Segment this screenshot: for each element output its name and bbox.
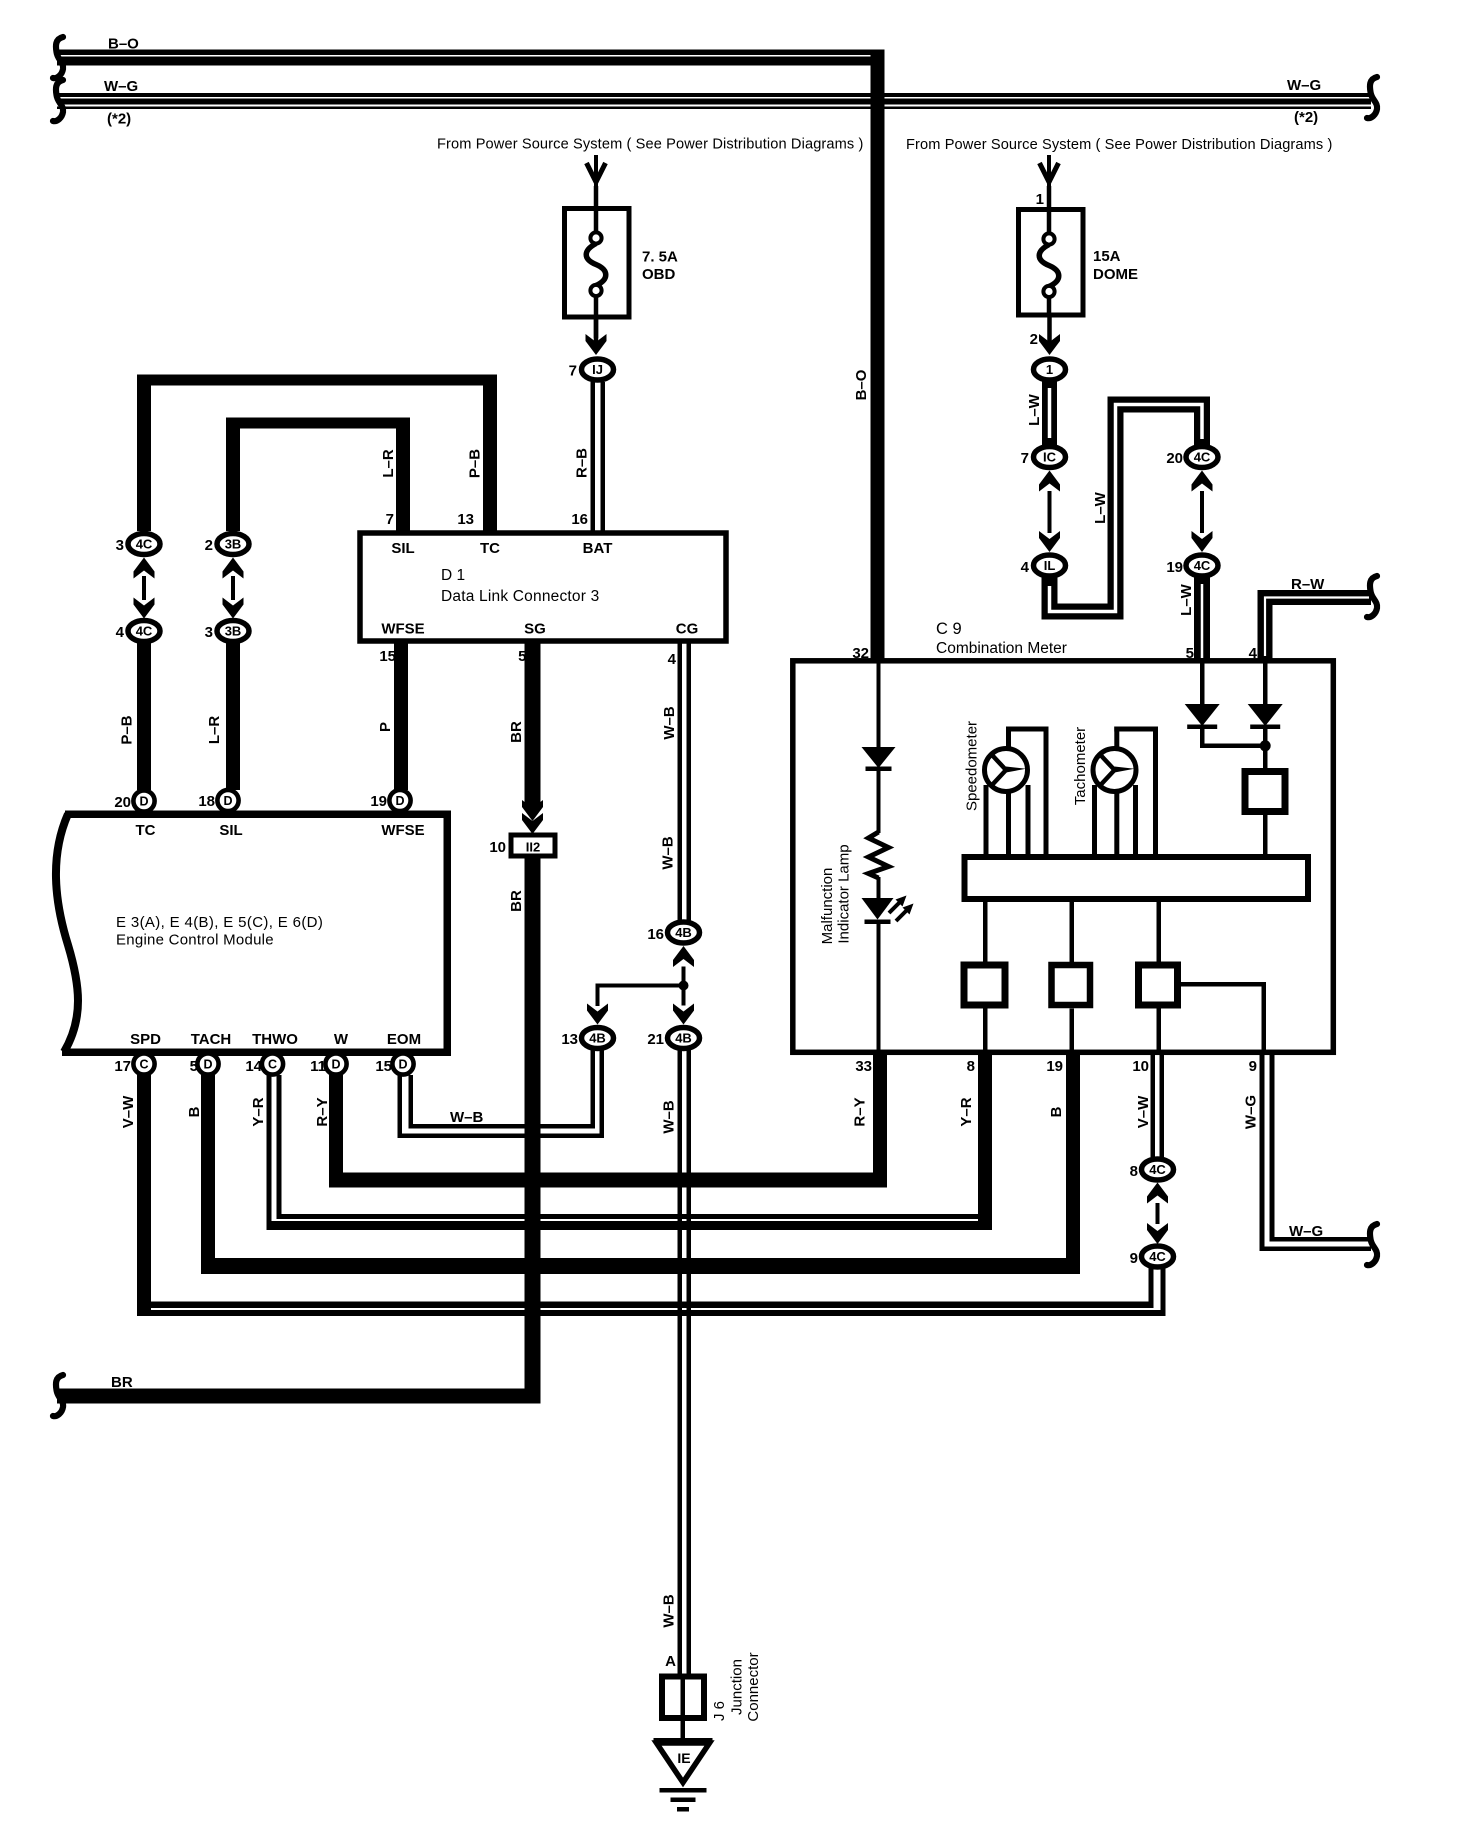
label D1 WFSE	[381, 621, 424, 638]
label ECM SIL	[219, 822, 242, 839]
wire W-B 13 4B to EOM run	[591, 1049, 605, 1139]
svg-text:B–O: B–O	[853, 369, 870, 400]
svg-text:II2: II2	[526, 840, 540, 855]
svg-text:20: 20	[1166, 450, 1183, 467]
svg-text:Junction: Junction	[729, 1659, 746, 1715]
wire R-Y up to C9 pin 33	[873, 1055, 887, 1188]
svg-text:Tachometer: Tachometer	[1072, 727, 1089, 805]
svg-text:W–G: W–G	[104, 78, 138, 95]
text from power source system left	[437, 137, 864, 153]
wire square 3 to pin 10	[1157, 1009, 1162, 1053]
label V-W left	[120, 1095, 137, 1128]
svg-text:8: 8	[967, 1058, 975, 1075]
label Malfunction Indicator Lamp	[819, 844, 853, 944]
wire junction to resistor block	[1263, 746, 1268, 768]
wire J6 to ground	[681, 1721, 686, 1739]
mating arrows 20 4C to 19 4C	[1192, 471, 1213, 553]
label B left	[186, 1106, 203, 1117]
pin number 18	[198, 793, 215, 810]
label ECM W	[334, 1031, 349, 1048]
mating arrows 4C pair	[134, 558, 155, 619]
wire BR bottom run	[57, 1389, 541, 1404]
pin 17 C of ECM SPD	[133, 1053, 154, 1074]
svg-text:J 6: J 6	[711, 1701, 728, 1721]
arrows into connector II2	[522, 800, 543, 834]
label W-B upper	[661, 706, 678, 740]
wire diode 5 elbow	[1200, 729, 1266, 748]
text from power source system right	[906, 137, 1333, 153]
svg-text:5: 5	[190, 1058, 198, 1075]
svg-text:C: C	[268, 1058, 277, 1072]
wire L-W IL to connector 20 4C	[1050, 405, 1203, 612]
pin 18 D of ECM SIL	[217, 790, 238, 811]
svg-text:Y–R: Y–R	[250, 1097, 267, 1126]
svg-text:D: D	[395, 794, 404, 808]
hook right end of wire W-G top	[1367, 77, 1377, 118]
wire W-G bottom run	[1260, 1237, 1372, 1251]
label BR bottom	[111, 1374, 133, 1391]
svg-text:B: B	[186, 1106, 203, 1117]
wire BR D1 SG down	[525, 644, 541, 811]
svg-text:OBD: OBD	[642, 266, 676, 283]
wire L-W 19 4C to C9 pin 5	[1194, 576, 1210, 662]
label ECM THWO	[252, 1031, 298, 1048]
svg-text:TC: TC	[136, 822, 156, 839]
connector 3 3B	[217, 621, 249, 642]
label Y-R left	[250, 1097, 267, 1126]
label D1 SIL	[391, 540, 414, 557]
power feed arrow to fuse DOME	[1040, 155, 1059, 193]
wire resistor to LED	[877, 877, 881, 898]
label R-Y right	[852, 1097, 869, 1126]
pin 10 of connector II2	[489, 839, 506, 856]
pin 9 of C9	[1249, 1058, 1257, 1075]
hook left end of wire W-G top	[53, 80, 63, 121]
svg-text:W–G: W–G	[1287, 77, 1321, 94]
wire Y-R ECM THWO down	[267, 1075, 282, 1230]
label P-B hook	[467, 449, 484, 478]
svg-text:V–W: V–W	[120, 1095, 137, 1128]
svg-text:Data Link Connector 3: Data Link Connector 3	[441, 588, 599, 605]
wire square 1 to pin 8	[983, 1009, 988, 1053]
svg-text:W–G: W–G	[1243, 1095, 1260, 1129]
wire L-R 3B to ECM SIL	[226, 642, 240, 791]
junction connector J6	[662, 1674, 704, 1722]
svg-text:B–O: B–O	[108, 36, 139, 53]
svg-text:Malfunction: Malfunction	[819, 868, 836, 945]
svg-text:3: 3	[116, 537, 124, 554]
svg-text:19: 19	[1166, 559, 1183, 576]
svg-text:W–B: W–B	[661, 1594, 678, 1628]
svg-text:L–R: L–R	[206, 716, 223, 745]
driver square 1	[964, 965, 1005, 1005]
hook wire P-B ECM TC to D1 TC	[137, 375, 497, 532]
wire P D1 WFSE to ECM WFSE	[394, 644, 408, 791]
label BR upper	[508, 721, 525, 743]
svg-text:THWO: THWO	[252, 1031, 298, 1048]
label W-B EOM run	[450, 1109, 484, 1126]
label D1 CG	[676, 621, 699, 638]
pin 19 D of ECM WFSE	[389, 790, 410, 811]
label (*2) right	[1294, 109, 1318, 126]
svg-text:7: 7	[1021, 450, 1029, 467]
pin 8 of connector 8 4C	[1130, 1163, 1138, 1180]
svg-text:C 9: C 9	[936, 620, 962, 638]
svg-text:15: 15	[375, 1058, 392, 1075]
wire square 3 to pin 9	[1181, 982, 1266, 1052]
diode MIL	[862, 747, 896, 771]
svg-text:7: 7	[386, 511, 394, 528]
svg-text:P: P	[377, 722, 394, 732]
svg-text:D: D	[223, 794, 232, 808]
svg-text:SPD: SPD	[130, 1031, 161, 1048]
pin 20 of connector 4C	[1166, 450, 1183, 467]
svg-text:19: 19	[1046, 1058, 1063, 1075]
svg-text:Engine Control Module: Engine Control Module	[116, 932, 274, 949]
pin 19 of C9	[1046, 1058, 1063, 1075]
svg-text:4C: 4C	[1149, 1249, 1166, 1264]
svg-text:BR: BR	[111, 1374, 133, 1391]
wire diode to resistor	[877, 771, 881, 833]
arrow into 13 4B	[587, 1002, 608, 1025]
label Tachometer	[1072, 727, 1089, 805]
svg-text:P–B: P–B	[467, 449, 484, 478]
label B right	[1048, 1106, 1065, 1117]
pin 16 of connector 16 4B	[647, 926, 664, 943]
pin 5 of D1 SG	[518, 648, 526, 665]
pin 4 of D1 CG	[668, 651, 677, 668]
svg-text:4C: 4C	[1194, 450, 1211, 465]
label R-Y left	[314, 1097, 331, 1126]
svg-text:V–W: V–W	[1135, 1095, 1152, 1128]
driver square 3	[1139, 965, 1178, 1005]
svg-text:R–B: R–B	[574, 448, 591, 478]
svg-text:9: 9	[1130, 1250, 1138, 1267]
svg-text:16: 16	[647, 926, 664, 943]
label D1 BAT	[583, 540, 613, 557]
wire R-W to C9 pin 4	[1265, 598, 1371, 661]
label W-B near J6	[661, 1594, 678, 1628]
svg-text:SIL: SIL	[219, 822, 242, 839]
svg-text:1: 1	[1046, 362, 1053, 377]
pin 2 of connector 2 3B	[205, 537, 213, 554]
wire bus to square 1	[983, 902, 988, 962]
wire W-G top horizontal bus	[57, 93, 1371, 109]
wire V-W ECM SPD down	[137, 1075, 151, 1316]
svg-text:BR: BR	[508, 890, 525, 912]
pin 13 of D1 TC	[457, 511, 474, 528]
label L-W fuse to IC	[1026, 393, 1043, 426]
connector 9 4C	[1142, 1246, 1174, 1267]
svg-text:L–R: L–R	[380, 449, 397, 478]
svg-text:IL: IL	[1044, 558, 1056, 573]
wire V-W up to 9 4C	[1149, 1268, 1166, 1317]
svg-text:R–Y: R–Y	[852, 1097, 869, 1126]
label V-W right	[1135, 1095, 1152, 1128]
wire R-Y horizontal run	[329, 1173, 887, 1188]
wire resistor block to bus	[1263, 812, 1268, 855]
hook wire L-R ECM SIL to D1 SIL	[226, 418, 410, 532]
svg-text:7. 5A: 7. 5A	[642, 249, 678, 266]
wire LED to pin 33	[877, 924, 881, 1052]
wire bus to square 2	[1070, 902, 1075, 962]
svg-text:R–Y: R–Y	[314, 1097, 331, 1126]
label P-B	[119, 715, 136, 744]
label L-R	[206, 716, 223, 745]
wire branch to 13 4B	[596, 984, 684, 1006]
svg-text:10: 10	[489, 839, 506, 856]
svg-text:From Power Source System ( See: From Power Source System ( See Power Dis…	[437, 137, 864, 153]
fuse 15A DOME	[1019, 207, 1084, 315]
svg-text:W–B: W–B	[660, 836, 677, 870]
pin 2 of fuse DOME	[1030, 331, 1038, 348]
pin 1 of fuse DOME	[1036, 191, 1044, 208]
resistor block C9	[1245, 772, 1285, 812]
pin 15 of D1 WFSE	[379, 648, 396, 665]
svg-text:1: 1	[1036, 191, 1044, 208]
pin number 14	[245, 1058, 262, 1075]
svg-text:E 3(A), E 4(B), E 5(C), E 6(D): E 3(A), E 4(B), E 5(C), E 6(D)	[116, 914, 323, 931]
svg-text:4C: 4C	[136, 537, 153, 552]
speedometer gauge	[985, 749, 1028, 792]
mating arrows 8 4C to 9 4C	[1147, 1183, 1168, 1245]
svg-text:4: 4	[1021, 559, 1030, 576]
box C9 combination meter	[793, 661, 1334, 1053]
svg-text:P–B: P–B	[119, 715, 136, 744]
connector 1	[1034, 359, 1066, 380]
box D1 data link connector 3	[360, 533, 726, 641]
svg-text:D: D	[139, 795, 148, 809]
pin 14 C of ECM THWO	[262, 1053, 283, 1074]
svg-text:EOM: EOM	[387, 1031, 421, 1048]
wire feed to fuse OBD	[594, 186, 599, 208]
svg-text:TC: TC	[480, 540, 500, 557]
fuse 7.5A OBD	[565, 206, 630, 338]
label R-B	[574, 448, 591, 478]
svg-text:W–B: W–B	[661, 706, 678, 740]
pin 10 of C9	[1132, 1058, 1149, 1075]
pin 4 of connector IL	[1021, 559, 1030, 576]
label W-B below 21 4B	[661, 1100, 678, 1134]
wire feed to fuse DOME	[1047, 186, 1052, 209]
label ECM TACH	[191, 1031, 232, 1048]
pin 33 of C9	[855, 1058, 872, 1075]
svg-text:SG: SG	[524, 621, 546, 638]
svg-text:15: 15	[379, 648, 396, 665]
pin A of J6	[665, 1653, 676, 1670]
wire L-W connector 1 to IC	[1042, 380, 1057, 446]
svg-text:4B: 4B	[675, 925, 692, 940]
pin 19 of connector 19 4C	[1166, 559, 1183, 576]
svg-text:BAT: BAT	[583, 540, 613, 557]
svg-text:IE: IE	[677, 1750, 690, 1766]
svg-text:13: 13	[457, 511, 474, 528]
svg-text:D: D	[203, 1058, 212, 1072]
label ECM WFSE	[381, 822, 424, 839]
svg-text:16: 16	[571, 511, 588, 528]
wire B horizontal run	[201, 1258, 1080, 1274]
arrow into 21 4B	[673, 1004, 694, 1025]
svg-text:Y–R: Y–R	[958, 1097, 975, 1126]
arrow below 16 4B	[673, 946, 694, 981]
label 7. 5A OBD	[642, 249, 678, 284]
connector 4 4C	[128, 621, 160, 642]
connector IC	[1034, 447, 1066, 468]
hook right end of wire W-G bottom	[1367, 1224, 1377, 1265]
svg-text:D: D	[331, 1058, 340, 1072]
pin number 17	[114, 1058, 131, 1075]
pin number 20	[114, 794, 131, 811]
ground IE	[654, 1738, 713, 1812]
wire C9 pin 4 to diode	[1263, 663, 1268, 704]
svg-text:WFSE: WFSE	[381, 822, 424, 839]
svg-text:From Power Source System ( See: From Power Source System ( See Power Dis…	[906, 137, 1333, 153]
svg-text:20: 20	[114, 794, 131, 811]
svg-text:3: 3	[205, 624, 213, 641]
svg-text:21: 21	[647, 1031, 664, 1048]
text D 1 Data Link Connector 3	[441, 567, 599, 605]
box ECM	[56, 811, 451, 1057]
svg-text:B: B	[1048, 1106, 1065, 1117]
svg-text:Speedometer: Speedometer	[964, 721, 981, 811]
bus bar C9	[965, 857, 1309, 899]
svg-text:IJ: IJ	[592, 362, 603, 377]
pin 11 D of ECM W	[325, 1053, 346, 1074]
svg-text:19: 19	[370, 793, 387, 810]
wire W-B 21 4B to J6	[678, 1049, 692, 1675]
label W-G pin 9	[1243, 1095, 1260, 1129]
wire BR II2 down	[525, 859, 541, 1404]
mating arrows 3B pair	[223, 558, 244, 619]
diode under pin 5	[1185, 704, 1220, 729]
junction dot W-B	[679, 981, 689, 991]
hook left end of wire B-O	[53, 37, 63, 78]
pin number 15	[375, 1058, 392, 1075]
text ECM name	[116, 914, 323, 949]
svg-text:7: 7	[569, 363, 577, 380]
label B-O top	[108, 36, 139, 53]
hook right end of wire R-W	[1367, 576, 1377, 617]
connector 20 4C	[1186, 447, 1218, 468]
svg-text:R–W: R–W	[1291, 576, 1325, 593]
svg-text:W–B: W–B	[661, 1100, 678, 1134]
pin 4 of connector 4 4C	[116, 624, 125, 641]
LED malfunction indicator lamp	[862, 896, 914, 925]
svg-text:BR: BR	[508, 721, 525, 743]
power feed arrow to fuse OBD	[587, 155, 606, 193]
pin 15 D of ECM EOM	[392, 1053, 413, 1074]
pin 3 of connector 3 4C	[116, 537, 124, 554]
label Y-R right	[958, 1097, 975, 1126]
svg-text:W–G: W–G	[1289, 1223, 1323, 1240]
pin 3 of connector 3 3B	[205, 624, 213, 641]
pin 7 of D1 SIL	[386, 511, 394, 528]
svg-text:10: 10	[1132, 1058, 1149, 1075]
pin 7 of connector IC	[1021, 450, 1029, 467]
wire R-Y ECM W down	[329, 1075, 343, 1188]
wire C9 pin 5 to diode	[1200, 663, 1205, 704]
wire B up to C9 pin 19	[1066, 1055, 1080, 1274]
svg-text:L–W: L–W	[1092, 491, 1109, 524]
svg-text:D 1: D 1	[441, 567, 465, 584]
hook left end of wire BR	[53, 1375, 63, 1416]
label ECM SPD	[130, 1031, 161, 1048]
svg-text:(*2): (*2)	[107, 111, 131, 128]
connector 2 3B	[217, 534, 249, 555]
pin 8 of C9	[967, 1058, 975, 1075]
pin 32 of C9	[852, 645, 869, 662]
svg-text:Connector: Connector	[745, 1652, 762, 1721]
pin number 11	[310, 1058, 326, 1075]
svg-text:Indicator Lamp: Indicator Lamp	[836, 844, 853, 943]
svg-text:WFSE: WFSE	[381, 621, 424, 638]
label 15A DOME	[1093, 248, 1138, 283]
connector 21 4B	[668, 1028, 700, 1049]
label R-W	[1291, 576, 1325, 593]
svg-text:C: C	[139, 1058, 148, 1072]
pin number 19	[370, 793, 387, 810]
svg-text:(*2): (*2)	[1294, 109, 1318, 126]
svg-text:18: 18	[198, 793, 215, 810]
svg-text:33: 33	[855, 1058, 872, 1075]
svg-text:W–B: W–B	[450, 1109, 484, 1126]
wire W-B D1 CG to 16 4B	[678, 644, 692, 921]
wire Y-R horizontal run	[267, 1214, 993, 1230]
label L-W to meter	[1178, 583, 1195, 616]
svg-text:4B: 4B	[675, 1031, 692, 1046]
wire W-B EOM horizontal run	[398, 1124, 605, 1138]
svg-text:11: 11	[310, 1058, 326, 1075]
svg-text:14: 14	[245, 1058, 262, 1075]
wire diode 4 to junction	[1263, 729, 1268, 746]
wire R-B fuse OBD to D1 BAT	[591, 382, 606, 531]
pin 21 of connector 21 4B	[647, 1031, 664, 1048]
svg-text:4: 4	[668, 651, 677, 668]
wire Y-R up to C9 pin 8	[978, 1055, 992, 1230]
wire W-B ECM EOM down	[398, 1075, 414, 1138]
svg-text:SIL: SIL	[391, 540, 414, 557]
wire B ECM TACH down	[201, 1075, 215, 1274]
svg-text:4C: 4C	[136, 624, 153, 639]
svg-text:Combination Meter: Combination Meter	[936, 640, 1067, 657]
diode under pin 4	[1248, 704, 1283, 729]
wire V-W horizontal run	[137, 1302, 1166, 1317]
svg-text:CG: CG	[676, 621, 699, 638]
svg-text:4C: 4C	[1149, 1162, 1166, 1177]
label (*2) left	[107, 111, 131, 128]
pin 9 of connector 9 4C	[1130, 1250, 1138, 1267]
wire bus to square 3	[1157, 902, 1162, 962]
pin 5 of C9	[1186, 645, 1194, 662]
svg-text:TACH: TACH	[191, 1031, 232, 1048]
pin 7 of connector IJ	[569, 363, 577, 380]
tachometer gauge	[1093, 749, 1136, 792]
wire MIL branch	[877, 663, 881, 747]
connector 8 4C	[1142, 1159, 1174, 1180]
svg-text:3B: 3B	[225, 624, 242, 639]
mating arrows IC to IL	[1039, 471, 1060, 553]
label L-W s-bend	[1092, 491, 1109, 524]
label P	[377, 722, 394, 732]
junction dot diodes	[1260, 740, 1271, 751]
svg-text:4C: 4C	[1194, 558, 1211, 573]
arrow into connector 1	[1039, 315, 1060, 355]
pin number 5	[190, 1058, 198, 1075]
label W-G top right	[1287, 77, 1321, 94]
label W-G bottom	[1289, 1223, 1323, 1240]
svg-text:2: 2	[205, 537, 213, 554]
label Speedometer	[964, 721, 981, 811]
